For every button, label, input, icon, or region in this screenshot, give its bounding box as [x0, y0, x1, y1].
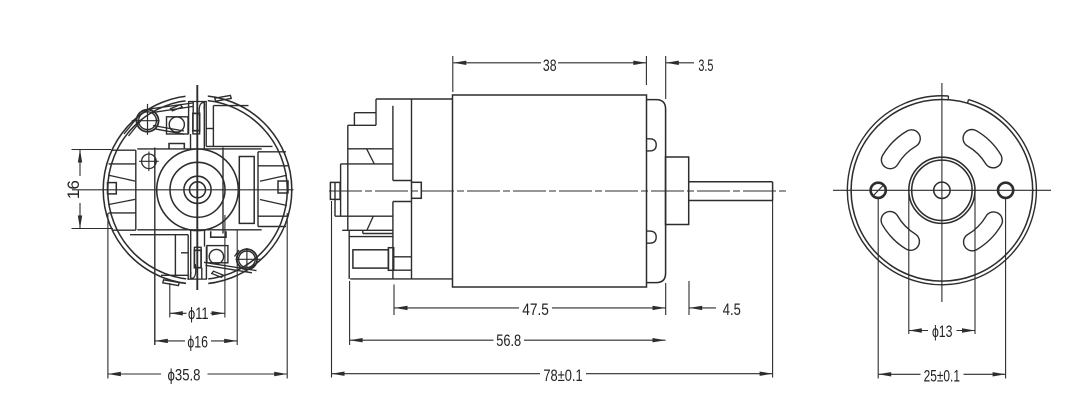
- bottom brush holder box: [207, 246, 228, 263]
- bottom-right step notch: [211, 231, 226, 237]
- right bracket horizontal bottom: [258, 226, 286, 228]
- dimension phi11 line: [170, 312, 187, 314]
- left bracket horizontal top: [111, 149, 136, 151]
- side view centerline: [329, 190, 786, 192]
- endbell step under bump: [348, 124, 376, 126]
- left view horizontal centerline: [72, 189, 294, 191]
- svg-text:ϕ35.8: ϕ35.8: [168, 366, 201, 384]
- top-right housing box bottom edge: [206, 145, 272, 147]
- center column vertical top-left: [190, 134, 192, 149]
- top brush eyelet outer circle: [137, 110, 159, 132]
- right view bearing boss outer circle: [909, 157, 975, 223]
- bottom eyelet cross horizontal: [236, 258, 262, 260]
- right view mounting hole right: [998, 183, 1013, 198]
- bottom-left housing box right slot edge: [187, 235, 189, 280]
- dimension 38 right ext above can: [645, 56, 647, 85]
- top wire hook curve: [199, 103, 204, 117]
- dimension 47.5 line: [395, 307, 520, 309]
- endbell tier line 3: [335, 215, 393, 217]
- left bracket diagonal upper: [108, 175, 135, 181]
- bottom brush circle: [209, 249, 223, 263]
- svg-text:16: 16: [65, 180, 83, 199]
- right view vertical centerline: [941, 83, 943, 302]
- dimension phi16 extension lines: [236, 231, 238, 346]
- left view endbell boss circle (ø16): [157, 149, 239, 231]
- endbell top edge: [376, 98, 453, 100]
- motor can rectangle: [453, 95, 647, 287]
- top eyelet cross vertical: [147, 104, 149, 135]
- top-right housing slot step: [206, 128, 213, 130]
- dimension 47.5 extension left: [393, 285, 395, 316]
- left view vertical centerline: [196, 85, 198, 290]
- bottom-left housing box top edge: [130, 234, 188, 236]
- left bracket vertical inner: [135, 150, 137, 230]
- endbell lower step line: [342, 229, 393, 231]
- endbell lower step line 2: [363, 233, 393, 235]
- band bottom horizontal: [137, 229, 261, 231]
- terminal A inner vertical: [334, 182, 336, 216]
- bottom wire hook curve: [190, 264, 195, 278]
- terminal A rectangle: [330, 182, 340, 199]
- top-right housing box inner edge: [212, 106, 214, 147]
- bottom terminal rectangle side view: [353, 250, 389, 268]
- top spring wire upper pair: [148, 103, 193, 109]
- endbell tier line 2: [341, 163, 393, 165]
- svg-text:ϕ11: ϕ11: [188, 305, 209, 323]
- tier B left edge: [340, 164, 342, 216]
- top-right housing box left slot edge: [205, 101, 207, 146]
- left hole diagonal tick: [873, 185, 885, 197]
- dimension phi16 line: [155, 340, 185, 342]
- endbell bottom edge: [350, 278, 452, 280]
- top-right housing box top edge: [213, 105, 248, 107]
- arc break patch bottom center: [186, 278, 208, 287]
- bottom-left housing slot step: [181, 252, 188, 254]
- left view inner wall circle: [108, 100, 288, 280]
- bottom eyelet cross vertical: [246, 248, 248, 272]
- dimension 16 extension line bottom: [72, 228, 114, 230]
- bottom terminal support vertical: [348, 230, 350, 279]
- bottom terminal cap side view: [388, 248, 393, 271]
- band top horizontal: [137, 148, 261, 150]
- bottom terminal rectangle: [194, 250, 201, 267]
- right view mounting hole left: [871, 183, 886, 198]
- svg-text:25±0.1: 25±0.1: [924, 367, 960, 385]
- end cap vent slot top: [647, 139, 657, 151]
- shaft top line: [689, 181, 773, 183]
- dimension 47.5 extension right: [665, 283, 667, 315]
- dimension 3.5 extension right: [665, 56, 667, 99]
- left bracket vertical outer / window left: [154, 148, 156, 346]
- svg-text:78±0.1: 78±0.1: [543, 367, 582, 385]
- right bracket diagonal lower: [260, 200, 287, 206]
- vent slot lower-right: [964, 212, 1003, 251]
- right view outer circle with notch: [847, 96, 1036, 285]
- center column vertical bottom-right: [204, 230, 206, 247]
- bottom lamination tab: [163, 280, 179, 286]
- top eyelet cross horizontal: [132, 120, 160, 122]
- left view bearing circle: [184, 176, 211, 203]
- right mounting tab rectangle: [278, 181, 288, 193]
- right bracket horizontal 2: [258, 165, 289, 167]
- dimension phi11 extension lines: [169, 283, 171, 318]
- endbell top step vertical: [375, 99, 377, 125]
- left bracket horizontal 2: [109, 163, 136, 165]
- endbell left edge long: [347, 125, 349, 230]
- bottom terminal cap: [194, 247, 201, 250]
- dimension 38 extension left: [452, 56, 454, 92]
- top terminal cap: [193, 131, 200, 134]
- endbell slot lines near bottom: [394, 256, 412, 258]
- dimension 78 extension left: [331, 201, 333, 378]
- svg-text:ϕ16: ϕ16: [187, 333, 208, 351]
- dimension 38 line: [453, 62, 541, 64]
- top brush eyelet inner circle: [139, 112, 157, 130]
- shaft bottom line: [689, 200, 773, 202]
- left view shaft circle: [190, 182, 206, 198]
- endbell tier top: [348, 148, 393, 150]
- endbell shoulder line top: [393, 180, 412, 182]
- left view commutator circle (ø11): [170, 162, 225, 217]
- right bracket diagonal upper: [260, 175, 287, 181]
- dimension 78 extension right (shaft tip): [772, 201, 774, 378]
- right view bearing boss inner circle: [912, 160, 972, 220]
- top terminal bump: [354, 112, 376, 114]
- bottom brush eyelet inner circle: [239, 251, 256, 268]
- dimension 3.5 arrow line: [666, 62, 694, 64]
- top lamination tab: [215, 95, 231, 101]
- dimension 4.5 extension: [688, 281, 690, 315]
- svg-text:38: 38: [543, 57, 557, 75]
- right view inner wall circle: [851, 100, 1033, 282]
- bottom spring clip parallelogram: [212, 271, 224, 277]
- bottom center bar verticals: [205, 247, 207, 280]
- top center bar verticals: [188, 102, 190, 135]
- top spring clip parallelogram: [171, 105, 183, 111]
- bottom spring wire pair: [204, 262, 257, 270]
- above-arc line bottom center: [189, 278, 207, 280]
- end cap vent slot bottom: [647, 231, 657, 243]
- center column vertical top-right: [203, 102, 205, 149]
- dimension 16 extension line top: [72, 149, 112, 151]
- endbell tier diagonal top: [367, 149, 375, 164]
- vent slot upper-right: [963, 130, 1002, 168]
- endbell inner vertical lower: [392, 202, 394, 279]
- bottom-left housing box inner edge: [174, 235, 176, 276]
- right magnet retainer rectangle: [239, 157, 254, 224]
- top terminal rectangle: [193, 113, 200, 130]
- bottom brush eyelet outer circle: [237, 249, 257, 269]
- center column vertical bottom-left: [190, 230, 192, 279]
- dimension 78 line: [332, 373, 541, 375]
- bearing tab rectangle: [412, 182, 422, 198]
- endbell collar vertical upper: [411, 99, 413, 182]
- dimension 56.8 extension left: [349, 281, 351, 345]
- right view horizontal centerline: [833, 189, 1051, 191]
- top spring wire end hook: [124, 118, 137, 135]
- left bracket horizontal bottom: [112, 229, 136, 231]
- screw head circle with cross: [142, 154, 157, 169]
- left mounting tab rectangle: [108, 183, 117, 194]
- svg-text:56.8: 56.8: [496, 332, 521, 350]
- top-left step notch: [169, 144, 184, 150]
- notch end ticks: [947, 96, 949, 100]
- left view outer circle (can OD): [103, 96, 292, 285]
- dimension 16 line: [79, 150, 81, 177]
- top brush holder box: [167, 117, 189, 134]
- bottom-left housing box bottom edge: [161, 274, 188, 276]
- under-arc line top center: [188, 101, 206, 103]
- right bracket vertical: [257, 152, 259, 227]
- endbell inner vertical: [392, 106, 394, 181]
- dimension phi13 line: [909, 330, 928, 332]
- endbell collar vertical lower: [411, 199, 413, 279]
- dimension 25 extension lines: [877, 199, 879, 379]
- right view shaft circle: [934, 182, 950, 198]
- svg-text:ϕ13: ϕ13: [932, 323, 953, 341]
- endbell tier diagonal bottom: [367, 216, 374, 230]
- end cap outline with rounded corners: [647, 100, 666, 283]
- dimension 56.8 line: [350, 339, 494, 341]
- svg-text:3.5: 3.5: [698, 57, 713, 75]
- bearing boss rectangle: [666, 157, 689, 225]
- svg-text:47.5: 47.5: [522, 301, 549, 319]
- dimension 25 line: [878, 373, 920, 375]
- vent slot lower-left: [881, 211, 919, 250]
- right bracket horizontal 3: [258, 215, 289, 217]
- dimension 4.5 arrow line: [689, 307, 716, 309]
- left bracket horizontal 3: [109, 212, 136, 214]
- dimension phi35.8 line: [108, 373, 161, 375]
- bottom terminal support line: [349, 236, 393, 238]
- endbell lower step vertical: [362, 230, 364, 233]
- arc break patch top center: [186, 92, 208, 101]
- vent slot upper-left: [881, 130, 920, 169]
- right bracket horizontal top: [258, 151, 286, 153]
- window right vertical: [222, 148, 224, 234]
- left bracket diagonal lower: [108, 199, 135, 204]
- top spring lower pair to brush: [153, 126, 184, 132]
- bottom spring wire end tick: [235, 250, 240, 257]
- top brush circle: [169, 117, 184, 132]
- dimension phi13 extension lines: [908, 194, 910, 334]
- svg-text:4.5: 4.5: [723, 301, 741, 319]
- shaft end vertical: [772, 182, 774, 201]
- dimension phi35.8 extension lines: [107, 213, 109, 379]
- endbell shoulder line bottom: [393, 201, 412, 203]
